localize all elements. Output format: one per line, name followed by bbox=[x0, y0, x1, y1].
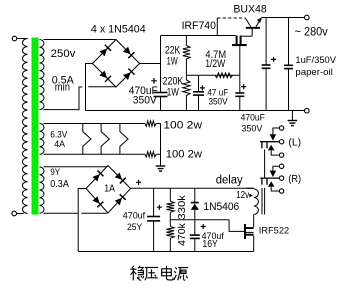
svg-text:250v: 250v bbox=[51, 48, 76, 60]
svg-text:~ 280v: ~ 280v bbox=[295, 27, 328, 39]
svg-text:4A: 4A bbox=[54, 139, 65, 149]
svg-text:1A: 1A bbox=[104, 183, 115, 194]
wire R lower terminal bbox=[271, 187, 279, 191]
svg-text:IRF522: IRF522 bbox=[259, 226, 289, 237]
bridge BR1 outline (4 x 1N5404) bbox=[93, 40, 140, 88]
transistor Q1 BUX48 bbox=[246, 27, 260, 29]
resistor R2 220K 1W bbox=[185, 75, 187, 80]
svg-text:BUX48: BUX48 bbox=[233, 3, 266, 15]
ground symbol humdinger bbox=[156, 165, 166, 167]
delay ground rail bbox=[78, 251, 253, 253]
bridge BR2 diode D7 bbox=[92, 196, 99, 203]
svg-text:12v: 12v bbox=[236, 190, 249, 201]
wire bridge minus to ground bus bbox=[86, 64, 93, 111]
terminal L common bbox=[279, 140, 283, 144]
resistor R1 22K 1W bbox=[185, 36, 187, 46]
svg-text:470k: 470k bbox=[177, 222, 188, 246]
svg-text:(R): (R) bbox=[288, 174, 301, 185]
transformer T1 core bbox=[32, 38, 39, 215]
capacitor C6 470uf 25Y bbox=[153, 188, 155, 216]
svg-text:25Y: 25Y bbox=[127, 222, 142, 232]
wire riser winding bottom to bridge AC2 bbox=[79, 87, 82, 110]
ground rail bbox=[86, 110, 305, 112]
svg-text:1/2W: 1/2W bbox=[205, 58, 225, 70]
svg-text:9Y: 9Y bbox=[50, 167, 60, 177]
wire L lower terminal bbox=[271, 150, 279, 155]
heater H2 bbox=[101, 124, 109, 155]
bridge BR1 diode D2 bbox=[123, 47, 131, 55]
contact bar R bbox=[260, 177, 279, 179]
wire BR2 minus to delay ground bbox=[78, 189, 86, 252]
bridge BR2 diode D8 bbox=[115, 198, 122, 205]
terminal R lower bbox=[279, 189, 283, 193]
resistor R4 100 2w (top) bbox=[145, 121, 156, 126]
terminal L feed bbox=[279, 126, 283, 130]
bridge BR1 diode D4 bbox=[123, 72, 131, 80]
resistor R7 470k bbox=[169, 220, 171, 227]
wire output rail to 280v terminal bbox=[262, 17, 305, 19]
wire relay coil to IRF522 drain bbox=[253, 214, 255, 227]
wire delay B+ line bbox=[131, 187, 254, 189]
wire 9V winding bottom to bridge (with crossover gap) bbox=[44, 212, 78, 214]
bridge BR2 diode D5 bbox=[92, 174, 99, 181]
svg-text:470uF: 470uF bbox=[241, 112, 266, 122]
transformer secondary 9V winding bbox=[39, 167, 44, 213]
resistor R6 330k bbox=[169, 188, 171, 201]
contact legs L bbox=[261, 142, 263, 149]
wire 9V winding top to bridge bbox=[44, 166, 107, 168]
svg-text:paper-oil: paper-oil bbox=[295, 67, 332, 78]
capacitor C7 470uf 16Y bbox=[194, 220, 196, 235]
svg-text:470uf: 470uf bbox=[123, 210, 146, 220]
svg-text:4 x 1N5404: 4 x 1N5404 bbox=[91, 23, 146, 35]
bridge BR1 diode D1 bbox=[99, 49, 107, 57]
arrow R lower contact bbox=[268, 181, 275, 187]
terminal R common bbox=[279, 176, 283, 180]
transformer secondary 250v winding bbox=[39, 40, 44, 110]
svg-text:350V: 350V bbox=[209, 97, 228, 107]
svg-text:350V: 350V bbox=[241, 124, 262, 134]
relay core lines bbox=[261, 188, 263, 215]
capacitor C4 output electrolytic bbox=[265, 18, 267, 65]
capacitor C5 1uF 350V paper-oil bbox=[288, 18, 290, 66]
terminal ~280v output bbox=[305, 15, 310, 20]
wire R feed bbox=[273, 166, 280, 170]
resistor R3 4.7M 1/2W bbox=[215, 73, 233, 78]
arrow L lower contact bbox=[268, 145, 275, 151]
wire bridge plus output bbox=[140, 63, 161, 65]
wire dashed to BUX48 collector bbox=[217, 17, 245, 19]
wire mains bottom to primary bbox=[17, 213, 24, 215]
svg-text:1W: 1W bbox=[167, 55, 179, 67]
mosfet U1 IRF740 bbox=[236, 36, 238, 45]
transformer T1 primary winding bbox=[22, 39, 27, 214]
arrow L feed contact bbox=[270, 134, 277, 140]
svg-text:350V: 350V bbox=[133, 95, 158, 107]
wire 250v winding bottom bbox=[44, 109, 80, 111]
capacitor C2 47uF 350V bbox=[198, 75, 200, 91]
arrow R feed contact bbox=[270, 171, 277, 177]
terminal top-left (AC mains in) bbox=[12, 36, 17, 41]
resistor R5 100 2w (bottom) bbox=[145, 152, 156, 157]
bridge BR2 outline 1A bbox=[86, 166, 131, 214]
svg-text:IRF740: IRF740 bbox=[182, 20, 216, 32]
svg-text:100 2w: 100 2w bbox=[166, 149, 202, 161]
wire B+ top rail bbox=[161, 35, 236, 37]
wire 6.3V bottom bbox=[44, 153, 145, 155]
terminal L lower bbox=[279, 153, 283, 157]
capacitor C1 470uF 350V (main filter) bbox=[154, 92, 168, 94]
terminal bottom-left (AC mains in) bbox=[12, 211, 17, 216]
node line delay divider bbox=[170, 219, 229, 221]
svg-text:delay: delay bbox=[216, 174, 243, 186]
svg-text:1W: 1W bbox=[167, 86, 180, 98]
caption 稳压电源 (regulated power supply) bbox=[130, 266, 188, 281]
wire B+ bus vertical bbox=[160, 36, 162, 93]
ground symbol on rail bbox=[291, 111, 293, 121]
svg-text:1N5406: 1N5406 bbox=[203, 201, 239, 213]
heater H3 bbox=[120, 124, 128, 155]
svg-text:100 2w: 100 2w bbox=[163, 119, 202, 131]
mosfet U2 IRF522 bbox=[244, 224, 246, 239]
relay coil RL1 12v bbox=[246, 187, 254, 189]
wire delay node to IRF522 gate bbox=[229, 220, 244, 232]
contact bar L bbox=[260, 141, 279, 143]
svg-text:330k: 330k bbox=[177, 194, 188, 220]
contact legs R bbox=[261, 178, 263, 185]
wire bridge AC2 segment (after crossover) bbox=[88, 86, 116, 88]
svg-text:1uF/350V: 1uF/350V bbox=[295, 55, 336, 66]
svg-text:0.3A: 0.3A bbox=[50, 179, 69, 190]
terminal R feed bbox=[279, 164, 283, 168]
wire 6.3V top bbox=[44, 123, 145, 125]
plus sign delay supply bbox=[136, 180, 141, 185]
svg-text:(L): (L) bbox=[288, 138, 301, 149]
wire BUX48 collector riser bbox=[216, 18, 218, 36]
transformer secondary 6.3V winding bbox=[39, 124, 44, 155]
heater H1 bbox=[83, 124, 91, 155]
node line divider junction bbox=[186, 74, 239, 76]
wire humdinger centre tap bbox=[160, 124, 162, 167]
wire L feed bbox=[273, 128, 280, 134]
wire 250v winding top to bridge bbox=[44, 39, 117, 41]
arrow after 12v label bbox=[249, 194, 253, 198]
capacitor C3 470uF 350V (second filter) bbox=[239, 75, 241, 93]
terminal ground output bbox=[305, 108, 310, 113]
diode D9 1N5406 bbox=[194, 188, 196, 202]
bridge BR1 diode D3 bbox=[99, 70, 107, 78]
svg-text:16Y: 16Y bbox=[202, 239, 218, 250]
svg-text:min: min bbox=[55, 82, 70, 94]
relay armature link bbox=[264, 150, 266, 179]
bridge BR2 diode D6 bbox=[115, 172, 122, 179]
wire mains top to primary bbox=[17, 38, 28, 40]
